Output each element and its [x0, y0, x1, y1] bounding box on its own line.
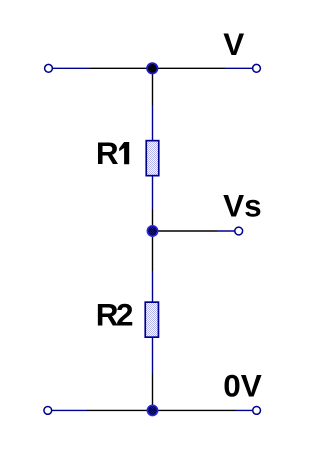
svg-text:Vs: Vs: [223, 188, 262, 224]
svg-text:V: V: [223, 26, 244, 62]
svg-text:R2: R2: [96, 297, 133, 333]
svg-text:0V: 0V: [223, 367, 262, 403]
svg-text:R: R: [96, 135, 119, 171]
